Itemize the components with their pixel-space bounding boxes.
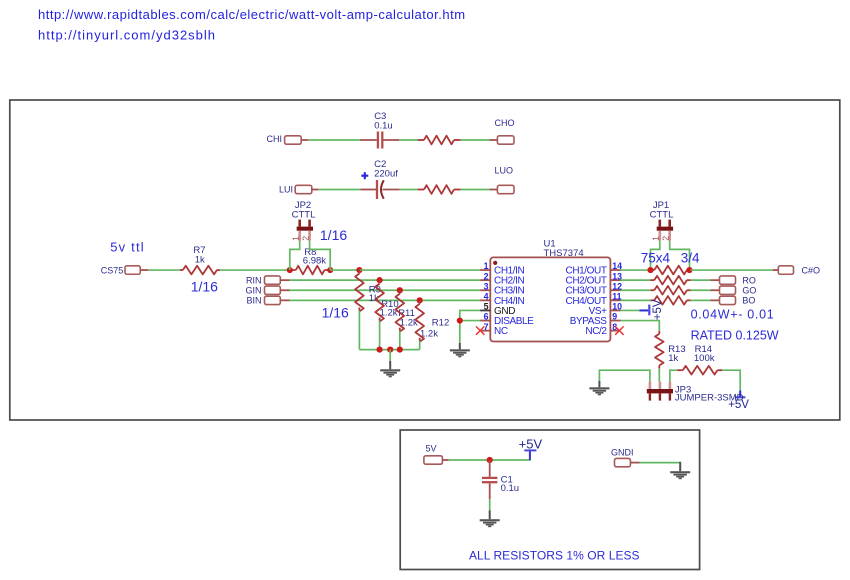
pin 11 CH4/OUT bbox=[566, 292, 622, 307]
svg-text:RATED 0.125W: RATED 0.125W bbox=[691, 328, 779, 342]
frame main schematic box bbox=[10, 100, 840, 420]
svg-text:LUI: LUI bbox=[279, 185, 293, 195]
svg-text:GNDI: GNDI bbox=[611, 447, 634, 457]
wire ground to JP3 pin1 bbox=[599, 370, 650, 381]
svg-text:RIN: RIN bbox=[246, 275, 262, 285]
svg-text:100k: 100k bbox=[694, 353, 715, 364]
port GIN bbox=[245, 286, 289, 296]
frame power box bbox=[400, 430, 699, 570]
ground (GNDI) bbox=[670, 462, 690, 479]
resistor R8 6.98k bbox=[290, 247, 330, 275]
junction dot R11 top bbox=[397, 287, 403, 293]
wire JP3 pin3 to R14 bbox=[670, 370, 678, 381]
wire JP1 pin1 to net bbox=[651, 241, 660, 270]
junction dot pin6/gnd bbox=[457, 317, 463, 323]
svg-text:1k: 1k bbox=[668, 353, 678, 364]
svg-text:5: 5 bbox=[484, 302, 489, 312]
wire BIN to IC pin 4 bbox=[290, 299, 481, 301]
port LUO bbox=[490, 165, 514, 193]
pin 2 CH2/IN bbox=[480, 271, 524, 286]
svg-text:BIN: BIN bbox=[246, 296, 261, 306]
wire pin 14 to 75ohm bbox=[621, 269, 651, 271]
wire GNDI to ground bbox=[640, 462, 681, 464]
wire R14 to +5V bbox=[722, 370, 740, 390]
port GO bbox=[710, 286, 756, 296]
svg-text:6: 6 bbox=[484, 312, 489, 322]
svg-text:http://www.rapidtables.com/cal: http://www.rapidtables.com/calc/electric… bbox=[38, 7, 466, 22]
wire CHI to C3 bbox=[308, 139, 360, 141]
wire pin 10 VS+ to +5V bbox=[621, 309, 640, 311]
wire resistor to LUO bbox=[461, 189, 490, 191]
pin 3 CH3/IN bbox=[480, 281, 524, 296]
resistor R10 1.2k (vertical) bbox=[375, 280, 398, 321]
wire CS75 to R7 bbox=[148, 269, 180, 271]
wire 75ohm to BO bbox=[691, 299, 711, 301]
svg-text:0.04W+- 0.01: 0.04W+- 0.01 bbox=[691, 308, 775, 322]
capacitor C3 bbox=[360, 111, 399, 149]
junction dot R8 left bbox=[287, 267, 293, 273]
svg-text:0.1u: 0.1u bbox=[501, 483, 519, 494]
wire to IC pin 1 bbox=[359, 269, 480, 271]
pin 14 CH1/OUT bbox=[566, 261, 623, 276]
junction dot rail R10 bbox=[377, 347, 383, 353]
port C#O bbox=[773, 266, 820, 276]
svg-text:1: 1 bbox=[651, 236, 661, 241]
svg-text:5V: 5V bbox=[426, 443, 437, 453]
port RIN bbox=[246, 275, 290, 285]
op-amp U1 THS7374 body bbox=[490, 238, 610, 341]
pin 1 CH1/IN bbox=[480, 261, 524, 276]
svg-text:R12: R12 bbox=[432, 318, 449, 329]
wire 75ohm to RO bbox=[691, 279, 711, 281]
connector JP1 CTTL bbox=[650, 200, 674, 241]
wire pin 12 to 75ohm bbox=[621, 289, 651, 291]
svg-text:1: 1 bbox=[291, 236, 301, 241]
no-connect X pin 7 bbox=[476, 326, 484, 334]
svg-text:JUMPER-3SMD: JUMPER-3SMD bbox=[675, 393, 744, 404]
supply +5V (power box) bbox=[519, 437, 543, 460]
svg-text:220uf: 220uf bbox=[374, 169, 398, 180]
svg-text:NC: NC bbox=[494, 326, 508, 337]
svg-text:0.1u: 0.1u bbox=[374, 120, 393, 131]
port RO bbox=[710, 276, 756, 286]
capacitor C2 (polarized) bbox=[360, 159, 399, 199]
wire R8 to R9 junction bbox=[330, 269, 359, 271]
pin 10 VS+ bbox=[589, 302, 622, 317]
ground (IC GND) bbox=[450, 343, 470, 358]
wire resistor to CHO bbox=[461, 139, 490, 141]
svg-text:1/16: 1/16 bbox=[191, 279, 218, 295]
svg-text:CTTL: CTTL bbox=[292, 210, 316, 221]
resistor 75ohm (CH1) bbox=[651, 266, 691, 275]
svg-text:+5V: +5V bbox=[519, 437, 543, 452]
svg-text:CHO: CHO bbox=[495, 118, 515, 128]
ground (R network) bbox=[380, 361, 400, 377]
junction dot R9 top bbox=[356, 267, 362, 273]
pin 5 GND bbox=[480, 302, 515, 317]
svg-text:GIN: GIN bbox=[245, 286, 261, 296]
wire R11 to rail bbox=[399, 331, 401, 350]
pin 9 BYPASS bbox=[570, 312, 621, 327]
wire RIN to IC pin 2 bbox=[290, 279, 481, 281]
svg-text:1/16: 1/16 bbox=[322, 304, 349, 320]
svg-text:2: 2 bbox=[661, 236, 671, 241]
resistor (LUO series) bbox=[418, 185, 461, 194]
wire JP2 pin2 to net bbox=[310, 241, 331, 270]
connector JP2 CTTL bbox=[291, 200, 316, 241]
wire pin 6 DISABLE to junction bbox=[460, 320, 480, 322]
resistor R13 1k (vertical) bbox=[655, 331, 686, 369]
port 5V bbox=[424, 443, 449, 464]
svg-text:CHI: CHI bbox=[267, 134, 283, 144]
svg-text:4: 4 bbox=[484, 292, 489, 302]
wire rail to ground bbox=[389, 350, 391, 361]
svg-text:LUO: LUO bbox=[495, 165, 514, 175]
port GNDI bbox=[611, 447, 640, 466]
port CHI bbox=[267, 134, 309, 144]
junction dot R10 top bbox=[377, 277, 383, 283]
supply +5V (VS+) bbox=[640, 299, 665, 320]
svg-text:CS75: CS75 bbox=[101, 265, 124, 275]
pin 4 CH4/IN bbox=[480, 292, 524, 307]
svg-text:1/16: 1/16 bbox=[320, 227, 347, 243]
wire LUI to C2 bbox=[319, 189, 361, 191]
connector JP3 JUMPER-3SMD bbox=[647, 382, 744, 404]
wire JP2 pin1 to net bbox=[290, 241, 300, 270]
junction dot R12 top bbox=[417, 297, 423, 303]
svg-text:1k: 1k bbox=[195, 254, 205, 265]
pin 8 NC/2 bbox=[585, 322, 620, 337]
no-connect X pin 8 bbox=[615, 326, 623, 334]
ground (JP3) bbox=[589, 381, 609, 395]
svg-text:C#O: C#O bbox=[802, 266, 821, 276]
wire pin 9 BYPASS to R13 bbox=[621, 321, 660, 331]
resistor R12 1.2k (vertical) bbox=[415, 300, 449, 341]
wire C3 to resistor bbox=[399, 139, 417, 141]
pin 7 NC bbox=[480, 322, 508, 337]
wire 75ohm to GO bbox=[691, 289, 711, 291]
resistor R9 1k (vertical) bbox=[355, 270, 381, 311]
wire pin 11 to 75ohm bbox=[621, 299, 651, 301]
svg-text:3/4: 3/4 bbox=[681, 250, 700, 265]
resistor 75ohm (CH4) bbox=[651, 296, 691, 305]
pin 6 DISABLE bbox=[480, 312, 534, 327]
svg-text:CTTL: CTTL bbox=[650, 210, 674, 221]
wire R7 to R8 bbox=[220, 269, 290, 271]
junction dot JP1 left bbox=[647, 267, 653, 273]
resistor R11 1.2k (vertical) bbox=[396, 290, 419, 331]
junction dot rail R11 bbox=[397, 347, 403, 353]
resistor 75ohm (CH3) bbox=[651, 286, 691, 295]
wire pin 5 GND to ground bbox=[460, 310, 480, 342]
svg-text:5v ttl: 5v ttl bbox=[110, 239, 145, 254]
svg-text:75x4: 75x4 bbox=[641, 250, 671, 265]
svg-text:3: 3 bbox=[484, 281, 489, 291]
supply +5V (R14) bbox=[728, 391, 749, 412]
port LUI bbox=[279, 185, 319, 195]
wire JP1 pin2 to net bbox=[670, 241, 690, 270]
svg-text:9: 9 bbox=[612, 312, 617, 322]
pin 12 CH3/OUT bbox=[566, 281, 623, 296]
junction dot C1 top bbox=[487, 457, 493, 463]
svg-text:6.98k: 6.98k bbox=[303, 256, 326, 267]
svg-text:2: 2 bbox=[301, 236, 311, 241]
svg-text:http://tinyurl.com/yd32sblh: http://tinyurl.com/yd32sblh bbox=[38, 28, 216, 43]
wire pin 13 to 75ohm bbox=[621, 279, 651, 281]
pin 13 CH2/OUT bbox=[566, 271, 623, 286]
wire R10 to rail bbox=[379, 321, 381, 350]
wire R13 to JP3 pin2 bbox=[658, 368, 660, 381]
port BIN bbox=[246, 296, 289, 306]
junction dot R8 right bbox=[327, 267, 333, 273]
port BO bbox=[710, 296, 755, 306]
wire R12 to rail bbox=[419, 341, 421, 350]
svg-text:BO: BO bbox=[742, 296, 755, 306]
port CHO bbox=[490, 118, 515, 144]
wire GIN to IC pin 3 bbox=[290, 289, 481, 291]
wire C1 to ground bbox=[489, 499, 491, 510]
wire 5V to +5V bbox=[449, 459, 531, 461]
wire ground rail bbox=[359, 349, 419, 351]
ground (C1) bbox=[480, 510, 500, 527]
svg-text:RO: RO bbox=[742, 276, 756, 286]
junction dot rail gnd stub bbox=[387, 347, 393, 353]
capacitor C1 bbox=[482, 460, 519, 499]
svg-text:2: 2 bbox=[484, 271, 489, 281]
resistor (CHO series) bbox=[418, 136, 461, 145]
wire R9 to rail bbox=[358, 311, 360, 350]
svg-text:11: 11 bbox=[612, 292, 621, 302]
svg-text:ALL RESISTORS 1% OR LESS: ALL RESISTORS 1% OR LESS bbox=[469, 549, 640, 563]
wire 75ohm to C#O bbox=[691, 269, 773, 271]
resistor R7 1k bbox=[180, 245, 220, 274]
resistor R14 100k bbox=[678, 344, 723, 374]
resistor 75ohm (CH2) bbox=[651, 276, 691, 285]
svg-text:1: 1 bbox=[484, 261, 489, 271]
junction dot JP1 right bbox=[686, 267, 692, 273]
svg-text:GO: GO bbox=[742, 286, 756, 296]
port CS75 bbox=[101, 265, 149, 275]
svg-text:NC/2: NC/2 bbox=[585, 326, 607, 337]
wire C2 to resistor bbox=[400, 189, 418, 191]
svg-text:+5V: +5V bbox=[652, 299, 664, 320]
